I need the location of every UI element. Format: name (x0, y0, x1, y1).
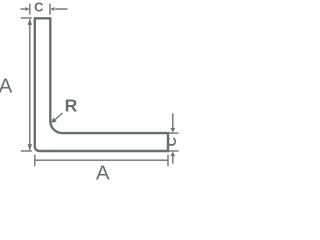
dimension A left: vertical line (29, 19, 31, 150)
dimension C right: top arrow (170, 128, 175, 133)
dimension C right: top tick (167, 132, 178, 134)
svg-text:C: C (164, 136, 179, 146)
dimension A left: top extension bar (21, 17, 32, 19)
dimension C right: bottom arrow (170, 152, 175, 157)
dimension C right: bottom tick (167, 150, 178, 152)
dimension C top: right tick (49, 4, 51, 15)
radius leader line (54, 113, 63, 121)
radius leader arrowhead (51, 118, 57, 123)
svg-text:A: A (0, 74, 13, 97)
dimension C right: top line (172, 113, 174, 128)
svg-text:A: A (96, 162, 110, 181)
dimension A left: bottom extension bar (21, 150, 32, 152)
dimension C top: left arrow (25, 7, 29, 11)
dimension A bottom: left tick (34, 155, 36, 167)
dimension A left: bottom arrow (28, 144, 33, 150)
dimension C top: right arrow (50, 7, 54, 11)
dimension C top: left tick (29, 4, 31, 15)
dimension C right: bottom line (172, 156, 174, 164)
dimension A bottom: line (35, 159, 168, 161)
dimension A left: top arrow (28, 19, 33, 25)
svg-text:C: C (34, 0, 44, 14)
dimension C top: right line (55, 8, 67, 10)
dimension A bottom: right tick (167, 155, 169, 167)
dimension C top: left line (21, 8, 26, 10)
svg-text:R: R (65, 96, 78, 116)
angle profile outline (35, 18, 168, 151)
